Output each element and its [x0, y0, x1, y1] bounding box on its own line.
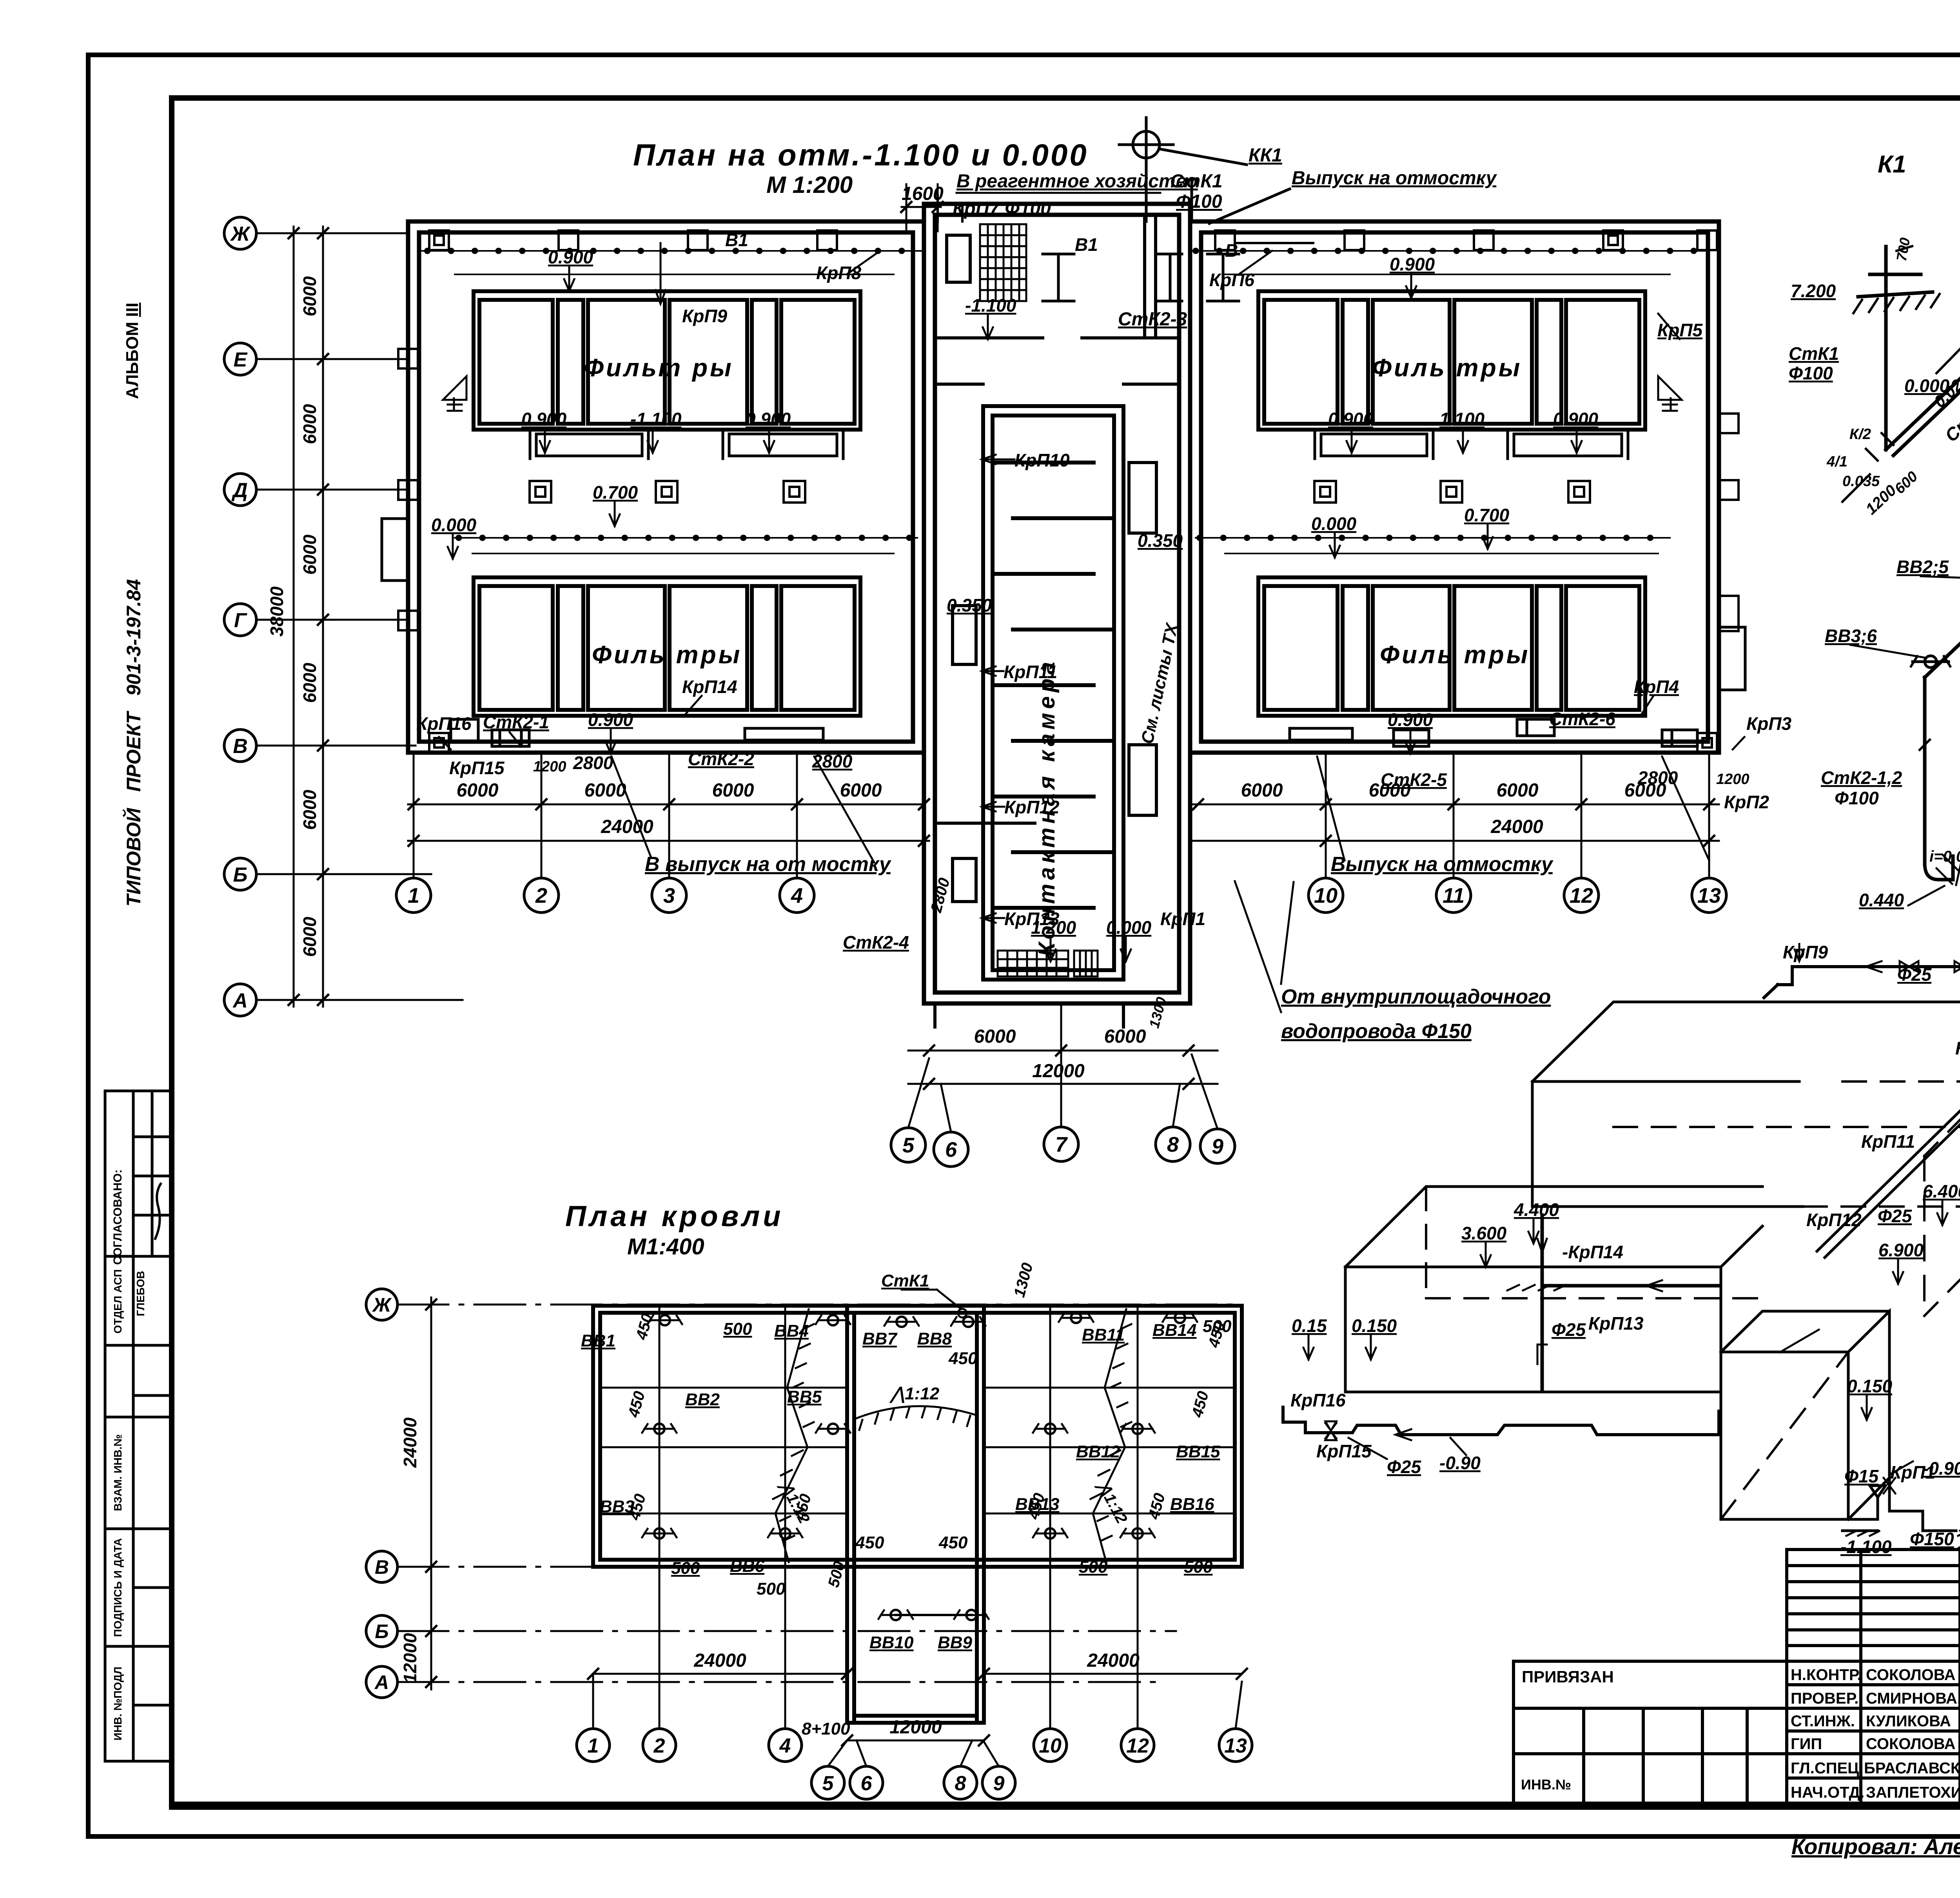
svg-text:КрП9: КрП9 — [1783, 942, 1828, 962]
svg-text:Ф25: Ф25 — [1897, 964, 1932, 985]
main pipe runs top — [1764, 937, 1960, 1035]
KrP14 drop pipe — [1541, 1215, 1544, 1254]
svg-text:Н.КОНТР.: Н.КОНТР. — [1791, 1666, 1862, 1684]
svg-text:ВВ7: ВВ7 — [862, 1329, 898, 1348]
misc central top pipes — [938, 195, 1313, 243]
svg-text:Ф100: Ф100 — [1789, 363, 1833, 383]
svg-text:5: 5 — [902, 1134, 915, 1157]
bottom texts under plan — [645, 853, 1554, 1043]
svg-text:ВВ2;5: ВВ2;5 — [1896, 557, 1949, 577]
svg-text:12: 12 — [1126, 1735, 1149, 1757]
svg-text:ВВ15: ВВ15 — [1176, 1442, 1220, 1461]
shaft ridge curve — [855, 1406, 976, 1430]
svg-text:4.400: 4.400 — [1514, 1199, 1559, 1220]
svg-text:6000: 6000 — [1241, 780, 1283, 801]
svg-text:ГЛ.СПЕЦ.: ГЛ.СПЕЦ. — [1791, 1760, 1864, 1777]
svg-text:10: 10 — [1314, 884, 1338, 907]
svg-text:АЛЬБОМ III: АЛЬБОМ III — [123, 303, 142, 399]
svg-text:ВВ2: ВВ2 — [685, 1390, 720, 1409]
svg-text:24000: 24000 — [1490, 817, 1543, 837]
svg-text:450: 450 — [855, 1533, 884, 1552]
svg-text:8+100: 8+100 — [802, 1719, 850, 1738]
svg-text:БРАСЛАВСКИЙ: БРАСЛАВСКИЙ — [1864, 1759, 1960, 1777]
svg-text:0.900: 0.900 — [746, 409, 791, 429]
top stair hatch in central block — [980, 224, 1026, 301]
svg-text:450: 450 — [948, 1349, 978, 1368]
svg-text:КК1: КК1 — [1249, 145, 1282, 166]
svg-text:В1: В1 — [725, 230, 748, 250]
svg-text:М 1:200: М 1:200 — [766, 172, 853, 198]
left wall protrusion — [382, 519, 408, 581]
svg-text:-0.900: -0.900 — [1923, 1458, 1960, 1479]
svg-text:6.900: 6.900 — [1878, 1240, 1924, 1260]
svg-text:10: 10 — [1039, 1735, 1062, 1757]
svg-text:6.400: 6.400 — [1923, 1181, 1960, 1201]
svg-text:КрП10: КрП10 — [1955, 1038, 1960, 1058]
svg-text:0.900: 0.900 — [548, 247, 593, 267]
margin signature squiggle — [155, 1184, 161, 1239]
svg-text:450: 450 — [625, 1389, 648, 1419]
wall pilasters — [398, 230, 1739, 753]
svg-text:12000: 12000 — [1032, 1061, 1085, 1081]
small stair symbol at bottom of chamber — [1074, 951, 1098, 976]
svg-text:КрП9: КрП9 — [682, 306, 727, 326]
svg-text:0.900: 0.900 — [1388, 709, 1433, 730]
svg-text:СтК1: СтК1 — [881, 1271, 929, 1290]
filter hall TR — [1258, 291, 1645, 430]
top annotations above plan — [902, 145, 1497, 330]
svg-text:0.350: 0.350 — [947, 595, 992, 615]
svg-text:ВЗАМ. ИНВ.№: ВЗАМ. ИНВ.№ — [112, 1434, 124, 1511]
roof bottom dims — [588, 1669, 1247, 1746]
svg-text:Выпуск на отмостку: Выпуск на отмостку — [1292, 168, 1497, 189]
svg-text:КрП10: КрП10 — [1014, 450, 1070, 470]
svg-text:12000: 12000 — [400, 1633, 420, 1683]
right wing outer walls — [1190, 221, 1719, 753]
svg-text:М1:400: М1:400 — [627, 1234, 704, 1259]
svg-text:Ж: Ж — [230, 223, 251, 245]
svg-text:0.035: 0.035 — [1842, 473, 1880, 490]
svg-text:СтК2-6: СтК2-6 — [1549, 709, 1615, 729]
svg-text:Филь тры: Филь тры — [592, 641, 742, 669]
svg-text:12: 12 — [1570, 884, 1593, 907]
svg-text:500: 500 — [671, 1559, 700, 1578]
svg-text:450: 450 — [1145, 1491, 1169, 1521]
svg-text:ГИП: ГИП — [1791, 1735, 1822, 1753]
square columns with pads — [530, 481, 1590, 503]
svg-text:Ф100: Ф100 — [1176, 191, 1222, 212]
svg-text:6: 6 — [861, 1772, 873, 1795]
svg-text:КрП11: КрП11 — [1004, 662, 1057, 682]
svg-text:ИНВ. №ПОДЛ: ИНВ. №ПОДЛ — [112, 1667, 124, 1740]
svg-text:9: 9 — [993, 1772, 1005, 1795]
svg-text:А: А — [232, 989, 248, 1012]
svg-text:0.900: 0.900 — [521, 409, 567, 429]
svg-text:2: 2 — [653, 1735, 665, 1757]
bottom-left pipe — [1283, 1407, 1719, 1435]
svg-text:Копировал: Алешикова: Копировал: Алешикова — [1791, 1834, 1960, 1859]
right wall protrusion — [1719, 627, 1745, 690]
svg-text:СтК1: СтК1 — [1789, 343, 1839, 364]
svg-text:700: 700 — [1893, 236, 1913, 262]
bottom wall outlet assemblies — [451, 719, 1697, 746]
svg-text:0.900: 0.900 — [1390, 254, 1435, 274]
svg-text:СтК2-1,2: СтК2-1,2 — [1821, 768, 1902, 788]
svg-text:ВВ3;6: ВВ3;6 — [1825, 626, 1877, 646]
svg-text:СтК2-2: СтК2-2 — [688, 749, 754, 769]
leaders for 5-9 — [908, 1003, 1218, 1132]
roof axis circles — [366, 1289, 397, 1698]
svg-text:0.700: 0.700 — [1464, 505, 1510, 525]
svg-text:8: 8 — [955, 1772, 966, 1795]
svg-text:От внутриплощадочного: От внутриплощадочного — [1281, 985, 1551, 1008]
svg-text:6000: 6000 — [974, 1026, 1016, 1047]
svg-text:ВВ1: ВВ1 — [581, 1331, 615, 1350]
svg-text:12000: 12000 — [889, 1717, 942, 1738]
svg-text:5: 5 — [822, 1772, 834, 1795]
svg-text:КрП14: КрП14 — [682, 677, 737, 697]
axono labels — [1290, 888, 1960, 1557]
svg-text:6000: 6000 — [840, 780, 882, 801]
central columns (I-beams) — [1043, 254, 1239, 301]
svg-text:СОКОЛОВА: СОКОЛОВА — [1866, 1735, 1956, 1753]
svg-text:3.600: 3.600 — [1461, 1223, 1507, 1243]
svg-text:450: 450 — [1189, 1389, 1212, 1419]
svg-text:4: 4 — [779, 1735, 791, 1757]
svg-text:0.350: 0.350 — [1138, 530, 1183, 551]
svg-text:6000: 6000 — [1369, 780, 1411, 801]
leader lines misc — [1348, 1260, 1960, 1475]
svg-text:0.700: 0.700 — [593, 482, 638, 503]
svg-text:i=0.005: i=0.005 — [1929, 848, 1960, 865]
roof drains row1 — [648, 1315, 682, 1325]
svg-text:-1.100: -1.100 — [630, 409, 682, 429]
svg-text:ВВ10: ВВ10 — [869, 1633, 914, 1652]
svg-text:К1: К1 — [1878, 151, 1906, 178]
bottom stair hatch in central block — [998, 951, 1068, 976]
axono box A (big top-center) — [1532, 1002, 1960, 1207]
svg-text:В: В — [375, 1556, 389, 1578]
svg-text:КрП13: КрП13 — [1004, 909, 1060, 929]
leader strokes for kr labels — [439, 243, 1744, 923]
svg-text:КрП15: КрП15 — [1316, 1441, 1372, 1461]
svg-text:6000: 6000 — [299, 789, 320, 830]
svg-text:-КрП14: -КрП14 — [1562, 1242, 1623, 1262]
svg-text:-1.100: -1.100 — [965, 295, 1016, 316]
roof vertical dim chain — [426, 1297, 436, 1689]
svg-text:6000: 6000 — [299, 276, 320, 316]
arrows on runs — [1866, 961, 1882, 972]
roof drains row2 — [642, 1424, 677, 1434]
svg-text:СОГЛАСОВАНО:: СОГЛАСОВАНО: — [111, 1169, 124, 1265]
svg-text:6000: 6000 — [299, 404, 320, 444]
svg-text:КрП12: КрП12 — [1806, 1210, 1862, 1230]
svg-text:КрП11: КрП11 — [1861, 1131, 1915, 1152]
svg-text:1: 1 — [588, 1735, 599, 1757]
svg-text:6000: 6000 — [1497, 780, 1539, 801]
axis circles 5-9 — [891, 1127, 1235, 1167]
svg-text:КрП16: КрП16 — [416, 713, 472, 734]
bottom dimension chains right wing — [1190, 755, 1719, 878]
svg-text:6000: 6000 — [1104, 1026, 1146, 1047]
svg-text:План кровли: План кровли — [565, 1200, 784, 1232]
svg-text:0.000: 0.000 — [1106, 917, 1152, 938]
svg-text:24000: 24000 — [1087, 1650, 1140, 1671]
svg-text:Ж: Ж — [372, 1294, 392, 1316]
svg-text:НАЧ.ОТД.: НАЧ.ОТД. — [1791, 1784, 1864, 1801]
svg-text:6000: 6000 — [457, 780, 499, 801]
svg-text:К/2: К/2 — [1849, 426, 1871, 443]
svg-text:ИНВ.№: ИНВ.№ — [1521, 1776, 1571, 1793]
svg-text:3: 3 — [663, 884, 675, 907]
svg-text:1: 1 — [408, 884, 419, 907]
svg-text:450: 450 — [626, 1492, 649, 1522]
roof labels — [581, 1271, 1232, 1738]
svg-text:ПРОВЕР.: ПРОВЕР. — [1791, 1690, 1858, 1707]
svg-text:КрП5: КрП5 — [1657, 320, 1703, 340]
svg-text:0.900: 0.900 — [588, 709, 633, 730]
svg-text:Филь тры: Филь тры — [1380, 641, 1530, 669]
roof inner row lines — [600, 1388, 1235, 1513]
svg-text:ОТДЕЛ АСП: ОТДЕЛ АСП — [112, 1269, 124, 1334]
svg-text:24000: 24000 — [693, 1650, 746, 1671]
svg-text:2800: 2800 — [573, 753, 613, 773]
svg-text:КрП8: КрП8 — [816, 263, 861, 283]
svg-text:1300: 1300 — [1011, 1261, 1036, 1299]
svg-text:КУЛИКОВА: КУЛИКОВА — [1866, 1713, 1951, 1730]
svg-text:В1: В1 — [1075, 234, 1098, 255]
svg-text:0.900: 0.900 — [1553, 409, 1599, 429]
svg-text:0.900: 0.900 — [1328, 409, 1374, 429]
svg-text:0.15: 0.15 — [1292, 1316, 1327, 1336]
svg-text:Ф150: Ф150 — [1910, 1529, 1954, 1549]
svg-text:-1.100: -1.100 — [1840, 1537, 1892, 1557]
svg-text:В реагентное хозяйство: В реагентное хозяйство — [956, 171, 1198, 192]
roof drains shaft bottom — [878, 1610, 913, 1620]
svg-text:ВВ12: ВВ12 — [1076, 1442, 1120, 1461]
svg-text:КрП6: КрП6 — [1209, 270, 1254, 290]
privyazan table — [1514, 1660, 1787, 1663]
filter hall TL — [474, 291, 860, 430]
svg-text:ПРИВЯЗАН: ПРИВЯЗАН — [1522, 1668, 1614, 1686]
filter hall BL — [474, 577, 860, 716]
svg-text:450: 450 — [633, 1312, 656, 1342]
svg-text:ГЛЕБОВ: ГЛЕБОВ — [134, 1271, 147, 1316]
roof outline — [593, 1306, 1242, 1723]
svg-text:План на отм.-1.100 и 0.000: План на отм.-1.100 и 0.000 — [633, 138, 1089, 172]
svg-text:1200: 1200 — [1716, 771, 1749, 788]
svg-text:450: 450 — [938, 1533, 968, 1552]
svg-text:А: А — [374, 1671, 389, 1693]
svg-text:ВВ6: ВВ6 — [730, 1557, 765, 1576]
elevation arrows — [564, 267, 574, 291]
svg-text:4/1: 4/1 — [1826, 454, 1847, 470]
mid platforms right wing — [1315, 431, 1628, 459]
svg-text:КрП12: КрП12 — [1004, 797, 1060, 817]
axono label arrows — [1528, 1220, 1539, 1243]
bottom dimension chains left wing — [408, 755, 929, 878]
svg-text:КрП3: КрП3 — [1746, 713, 1791, 734]
svg-text:13: 13 — [1224, 1735, 1247, 1757]
svg-text:Ф25: Ф25 — [1878, 1206, 1912, 1226]
svg-text:2800: 2800 — [927, 876, 953, 915]
ground hatch marks — [1507, 1230, 1960, 1294]
svg-text:Фильт ры: Фильт ры — [584, 354, 734, 382]
mid platforms left wing — [530, 431, 843, 459]
svg-text:СМИРНОВА.: СМИРНОВА. — [1866, 1690, 1960, 1707]
svg-text:500: 500 — [1079, 1557, 1108, 1577]
svg-text:ТИПОВОЙ ПРОЕКТ 901-3-197.8: ТИПОВОЙ ПРОЕКТ 901-3-197.84 — [122, 579, 145, 906]
roof column lines — [659, 1306, 1138, 1591]
left margin stamp table — [105, 1091, 171, 1761]
central bottom dims — [908, 1045, 1218, 1089]
svg-text:0.440: 0.440 — [1859, 890, 1904, 910]
svg-text:24000: 24000 — [400, 1417, 420, 1468]
svg-text:КрП2: КрП2 — [1724, 792, 1769, 812]
dim 1600 above — [901, 184, 1160, 231]
svg-text:ПОДПИСЬ И ДАТА: ПОДПИСЬ И ДАТА — [112, 1538, 124, 1637]
valves on top runs — [1900, 961, 1918, 972]
svg-text:6000: 6000 — [584, 780, 626, 801]
svg-text:Д: Д — [231, 479, 248, 502]
roof circle leaders — [593, 1290, 1242, 1766]
svg-text:0.150: 0.150 — [1847, 1376, 1893, 1396]
svg-text:В выпуск на от мостку: В выпуск на от мостку — [645, 853, 892, 876]
svg-text:КрП7 Ф100: КрП7 Ф100 — [953, 198, 1051, 219]
svg-text:6000: 6000 — [299, 662, 320, 703]
svg-text:водопровода Ф150: водопровода Ф150 — [1281, 1020, 1472, 1043]
axis circles 1-4 — [396, 878, 814, 913]
svg-text:6000: 6000 — [299, 534, 320, 575]
svg-text:Ф25: Ф25 — [1387, 1457, 1421, 1477]
roof bottom axis circles — [577, 1729, 1252, 1799]
svg-text:0.000: 0.000 — [1311, 514, 1357, 534]
svg-text:ВВ14: ВВ14 — [1152, 1321, 1197, 1340]
svg-text:2: 2 — [535, 884, 547, 907]
svg-text:СтК2-1: СтК2-1 — [483, 712, 549, 732]
svg-text:7: 7 — [1055, 1133, 1068, 1156]
svg-text:Б: Б — [233, 864, 248, 886]
filter hall BR — [1258, 577, 1645, 716]
svg-text:11: 11 — [1443, 884, 1465, 907]
svg-text:Филь тры: Филь тры — [1372, 354, 1522, 382]
svg-text:КрП1: КрП1 — [1160, 909, 1205, 929]
left wing outer walls — [408, 204, 1719, 1003]
chamber baffles — [993, 463, 1114, 908]
svg-text:500: 500 — [757, 1579, 786, 1599]
roof axis dash-dot lines — [397, 1305, 1242, 1682]
svg-text:Е: Е — [234, 348, 248, 371]
svg-text:7.200: 7.200 — [1791, 281, 1836, 301]
left axis circles — [224, 217, 256, 1016]
svg-text:Ф25: Ф25 — [1552, 1319, 1586, 1340]
axono box C (bottom-center tall) — [1721, 1311, 1889, 1519]
svg-text:8: 8 — [1167, 1133, 1179, 1156]
KrP1 bottom assembly — [1842, 1474, 1956, 1531]
central block internal walls — [935, 215, 1179, 1027]
svg-text:6000: 6000 — [1624, 780, 1666, 801]
roof valley zigzag right — [1091, 1309, 1131, 1562]
main title table — [1787, 1661, 1960, 1803]
svg-text:24000: 24000 — [601, 817, 653, 837]
svg-text:Ф100: Ф100 — [1835, 788, 1879, 808]
central contact chamber — [983, 406, 1123, 980]
svg-text:В: В — [233, 735, 248, 758]
svg-text:⋀1:12: ⋀1:12 — [889, 1384, 940, 1403]
svg-text:-0.90: -0.90 — [1439, 1453, 1481, 1473]
svg-text:13: 13 — [1697, 884, 1721, 907]
KrP9 arrow — [1795, 944, 1804, 961]
svg-text:Ф15: Ф15 — [1844, 1466, 1879, 1486]
svg-text:1.100: 1.100 — [1439, 409, 1485, 429]
svg-text:ВВ9: ВВ9 — [938, 1633, 973, 1652]
svg-text:СТ.ИНЖ.: СТ.ИНЖ. — [1791, 1713, 1855, 1730]
svg-text:ЗАПЛЕТОХИН: ЗАПЛЕТОХИН — [1866, 1784, 1960, 1801]
KK1 manhole — [1119, 118, 1290, 223]
central block walls — [924, 204, 1190, 1003]
svg-text:КрП4: КрП4 — [1634, 677, 1679, 697]
svg-text:1300: 1300 — [1146, 995, 1169, 1030]
axis leader lines — [256, 233, 463, 1000]
svg-text:СтК2-4: СтК2-4 — [843, 932, 909, 953]
vertical dim chains — [289, 227, 328, 1007]
pipe drop and run at box B — [1542, 1254, 1719, 1390]
roof drains row3 — [642, 1528, 677, 1539]
svg-text:0.000: 0.000 — [431, 515, 477, 535]
svg-text:СтК1: СтК1 — [1170, 171, 1223, 192]
svg-text:КрП13: КрП13 — [1588, 1313, 1644, 1334]
svg-text:4: 4 — [791, 884, 803, 907]
svg-text:38000: 38000 — [267, 586, 287, 637]
svg-text:Выпуск на отмостку: Выпуск на отмостку — [1331, 853, 1554, 876]
svg-text:500: 500 — [825, 1559, 848, 1589]
svg-text:См. листы ТХ: См. листы ТХ — [1138, 621, 1182, 746]
svg-text:1200: 1200 — [533, 758, 566, 775]
K1 riser stack — [1858, 247, 1960, 455]
axis circles 10-13 — [1308, 878, 1726, 913]
Ф150 double diagonal — [1817, 999, 1960, 1257]
roof valley zigzag left — [773, 1309, 814, 1562]
axono box D (dashed, contact chamber) — [1924, 1029, 1960, 1316]
kr pipe labels in plan — [416, 230, 1791, 953]
svg-text:ВВ16: ВВ16 — [1170, 1495, 1214, 1514]
svg-text:500: 500 — [723, 1319, 752, 1339]
svg-text:500: 500 — [1184, 1557, 1213, 1577]
svg-text:Б: Б — [375, 1620, 388, 1642]
elevation labels in plan — [431, 247, 1599, 938]
stk1 roof mark — [958, 1309, 967, 1317]
upper small table — [1787, 1550, 1960, 1661]
svg-text:9: 9 — [1212, 1135, 1223, 1158]
small stair marks left/right of wings — [443, 376, 1682, 411]
svg-text:0.150: 0.150 — [1352, 1316, 1397, 1336]
svg-text:6000: 6000 — [299, 916, 320, 957]
svg-text:СтК2-3: СтК2-3 — [1118, 309, 1187, 330]
svg-text:6: 6 — [945, 1138, 957, 1161]
svg-text:СОКОЛОВА: СОКОЛОВА — [1866, 1666, 1956, 1684]
top corridor pipelines with dots (B1) — [421, 251, 1705, 553]
svg-text:ВВ8: ВВ8 — [917, 1329, 952, 1348]
svg-text:Г: Г — [234, 609, 247, 632]
svg-text:КрП15: КрП15 — [449, 758, 505, 778]
axono box B (left-middle) — [1345, 1187, 1762, 1392]
svg-text:6000: 6000 — [712, 780, 754, 801]
svg-text:КрП16: КрП16 — [1290, 1390, 1346, 1410]
